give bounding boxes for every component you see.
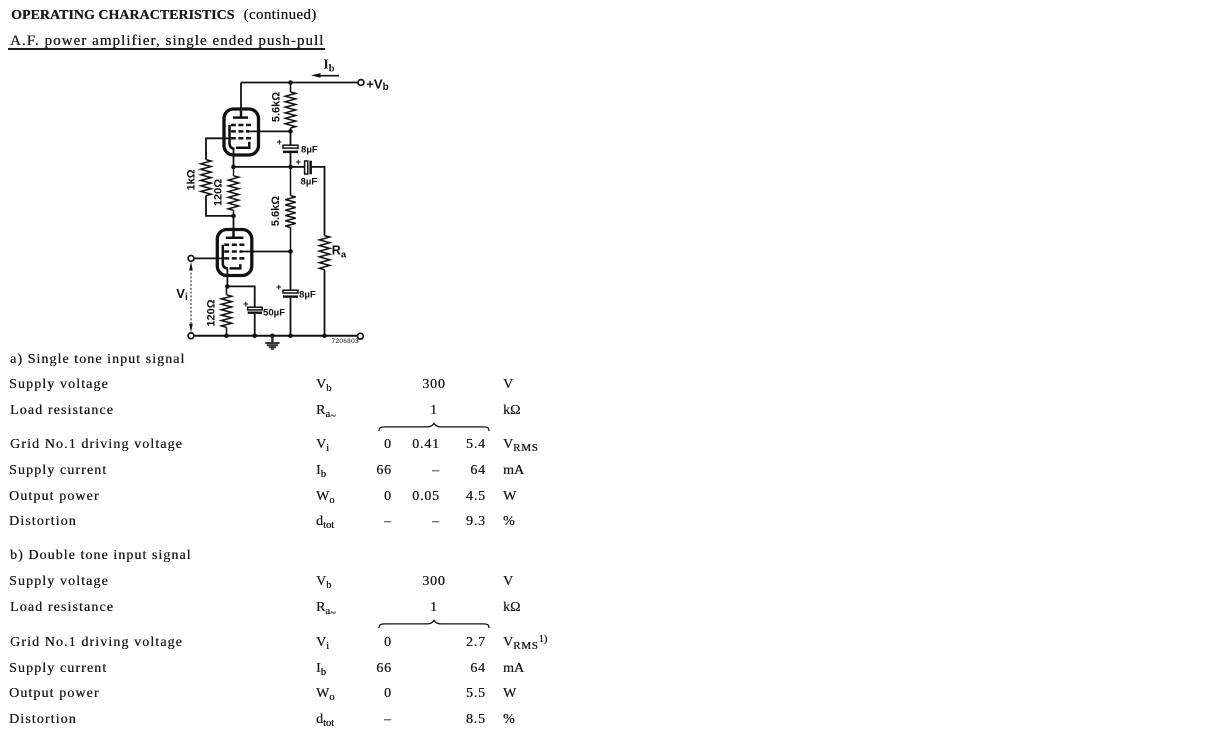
junction Ra rail <box>322 334 327 339</box>
junction screen node V2 <box>288 249 293 254</box>
wire bottom rail <box>194 335 358 337</box>
junction screen-coupling cross <box>288 165 293 170</box>
svg-text:120Ω: 120Ω <box>206 299 218 326</box>
wire cross node to coupling cap <box>291 166 305 168</box>
junction 50uF rail <box>252 334 257 339</box>
wire screen V2 to node <box>243 251 291 253</box>
terminal +Vb <box>358 80 364 86</box>
wire Ra to rail <box>324 270 326 336</box>
svg-text:7206803: 7206803 <box>332 338 359 345</box>
label Vi <box>176 286 188 303</box>
junction bias node <box>231 214 236 219</box>
junction cathode node V2 <box>225 284 230 289</box>
wire grid V1 to 1k <box>206 138 231 159</box>
brace table b <box>379 620 489 628</box>
label 120Ohm lower <box>206 299 218 326</box>
junction 8uF rail <box>288 334 293 339</box>
capacitor 50uF <box>243 299 262 336</box>
wire cathode node to coupling node <box>234 166 291 168</box>
resistor 120 upper cathode <box>228 167 238 216</box>
svg-text:+: + <box>296 157 302 168</box>
terminal output bottom right <box>358 333 364 339</box>
label 8uF coupling <box>301 176 318 187</box>
junction cathode node V1 <box>231 165 236 170</box>
wire cathode V2 <box>226 269 228 287</box>
junction screen node V1 <box>288 129 293 134</box>
resistor 5.6k (upper screen) <box>285 83 295 132</box>
label 5.6kOhm upper <box>271 92 283 122</box>
section subtitle <box>10 34 324 48</box>
label 7206803 <box>332 338 359 345</box>
label 120Ohm upper <box>213 179 225 206</box>
label 1kOhm <box>186 169 198 190</box>
svg-text:Vi: Vi <box>176 286 188 303</box>
brace table a <box>379 423 489 431</box>
current arrow Ib <box>311 73 339 78</box>
svg-text:Ra: Ra <box>332 243 347 260</box>
wire cathode V1 to node <box>233 149 235 167</box>
pentode V2 (lower) <box>217 230 252 276</box>
wire output branch <box>312 167 325 236</box>
label +Vb <box>366 76 388 93</box>
wire top supply rail <box>241 82 358 84</box>
arrow Vi <box>189 262 193 333</box>
wire anode riser V1 <box>240 83 242 118</box>
ground <box>265 336 279 349</box>
capacitor 8uF upper decoupling <box>277 131 299 167</box>
junction rail / 5.6k <box>288 80 293 85</box>
svg-text:5.6kΩ: 5.6kΩ <box>271 92 283 122</box>
resistor 1k <box>201 160 211 196</box>
resistor Ra <box>319 236 329 270</box>
terminal input bottom <box>188 333 194 339</box>
wire input to V2 grid <box>194 257 224 259</box>
pentode V1 (upper) <box>224 109 259 155</box>
resistor 5.6k (lower screen) <box>285 167 295 252</box>
svg-text:+: + <box>277 137 283 148</box>
label 8uF lower <box>299 289 316 300</box>
junction 120 rail <box>224 334 229 339</box>
svg-text:8µF: 8µF <box>301 176 318 187</box>
resistor 120 lower cathode <box>221 286 231 335</box>
junction ground rail <box>270 334 275 339</box>
wire cathode to 50uF <box>227 286 254 307</box>
svg-text:1kΩ: 1kΩ <box>186 169 198 190</box>
label Ib <box>324 57 335 75</box>
label Ra <box>332 243 347 260</box>
svg-text:5.6kΩ: 5.6kΩ <box>270 196 282 226</box>
wire bias node to V2 anode <box>233 216 235 238</box>
page title <box>11 9 234 23</box>
svg-text:Ib: Ib <box>324 57 335 75</box>
capacitor 8uF lower decoupling <box>276 252 298 336</box>
label 50uF <box>263 308 285 319</box>
svg-text:50µF: 50µF <box>263 308 285 319</box>
svg-text:120Ω: 120Ω <box>213 179 225 206</box>
label 5.6kOhm lower <box>270 196 282 226</box>
subtitle underline <box>8 48 325 49</box>
svg-text:8µF: 8µF <box>299 289 316 300</box>
svg-text:+Vb: +Vb <box>366 76 388 93</box>
wire screen V1 to node <box>249 130 291 132</box>
svg-text:+: + <box>276 282 282 293</box>
label 8uF upper <box>301 145 318 156</box>
terminal input top <box>188 256 194 262</box>
wire 1k to bias node <box>206 196 234 216</box>
capacitor 8uF coupling <box>296 157 312 174</box>
svg-text:+: + <box>243 299 249 310</box>
svg-text:8µF: 8µF <box>301 145 318 156</box>
